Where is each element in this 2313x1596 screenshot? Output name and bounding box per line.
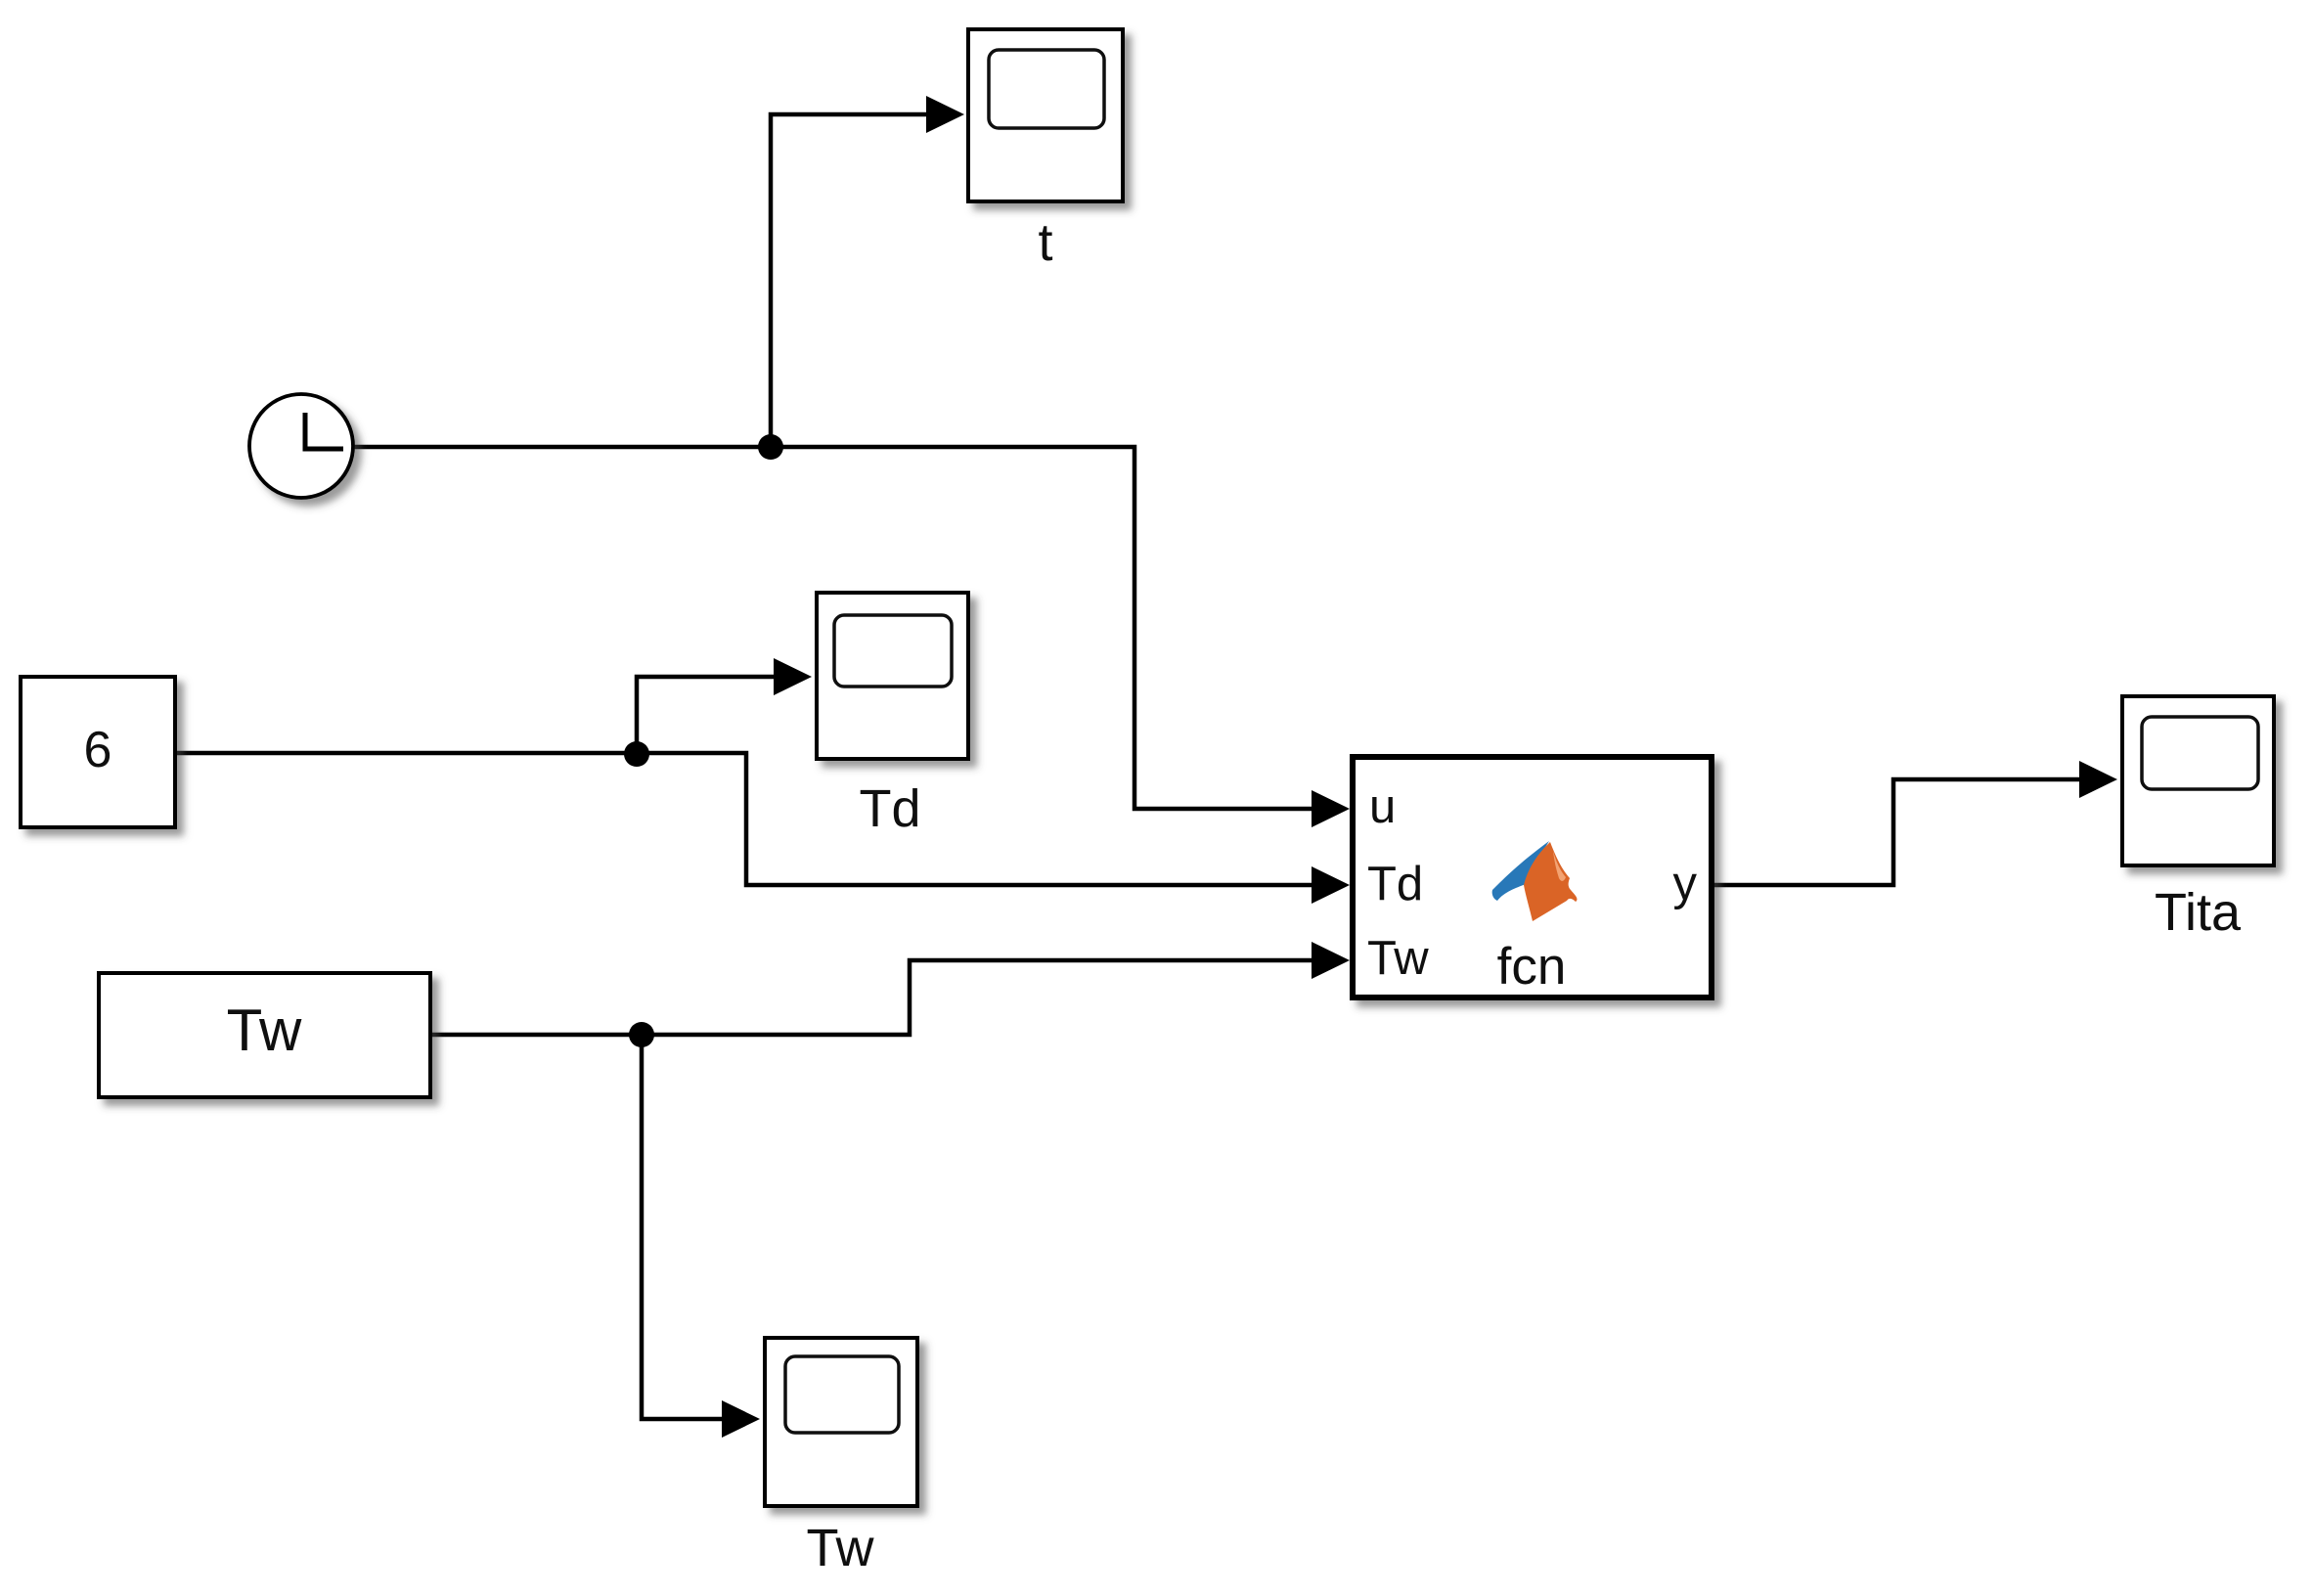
svg-text:fcn: fcn (1497, 938, 1567, 996)
svg-text:Tita: Tita (2155, 883, 2242, 942)
svg-text:6: 6 (84, 722, 112, 778)
svg-text:Tw: Tw (1367, 932, 1429, 985)
svg-text:Td: Td (1367, 858, 1423, 910)
svg-text:Tw: Tw (227, 997, 302, 1063)
svg-text:y: y (1673, 858, 1698, 910)
svg-text:u: u (1369, 780, 1396, 833)
svg-text:Td: Td (859, 779, 920, 838)
svg-text:Tw: Tw (806, 1519, 874, 1577)
svg-text:t: t (1038, 213, 1052, 272)
